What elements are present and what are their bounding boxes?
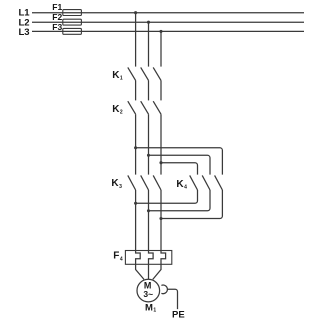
wire PE <box>168 289 178 309</box>
contactor K1 pole 2 contact <box>141 67 149 80</box>
contactor K2 pole 1 contact <box>128 101 136 114</box>
contactor K3 pole 2 contact <box>141 175 149 190</box>
svg-text:3~: 3~ <box>143 289 153 299</box>
wire K4 outer return to phase3 <box>161 190 222 219</box>
wire L1 bus <box>32 12 304 14</box>
wire L3 bus <box>32 30 304 32</box>
node phase1 branch bottom <box>134 202 137 205</box>
wire phase1 K2 to K3 <box>135 114 137 174</box>
node phase1 branch top <box>134 146 137 149</box>
wire phase2 K2 to K3 <box>148 114 150 174</box>
contactor K1 pole 3 contact <box>153 67 161 80</box>
wire phase3 K2 to K3 <box>160 114 162 174</box>
fuse F3 <box>63 28 82 34</box>
svg-text:PE: PE <box>172 309 185 320</box>
PE pigtail terminal <box>161 285 167 294</box>
overload relay F4 body <box>125 251 171 265</box>
svg-text:1: 1 <box>153 308 156 314</box>
wire phase2 K3 through F4 heater to motor <box>149 190 154 279</box>
wire K4 inner return to phase1 <box>136 190 198 203</box>
contactor K2 pole 2 contact <box>141 101 149 114</box>
svg-text:1: 1 <box>120 76 123 82</box>
svg-text:F3: F3 <box>52 22 62 32</box>
contactor K4 pole 1 contact <box>190 175 198 190</box>
wire phase3 drop from L3 to K1 <box>160 31 162 66</box>
node phase2 branch bottom <box>147 209 150 212</box>
contactor K3 pole 3 contact <box>153 175 161 190</box>
wire branch phase1 to K4 outer <box>136 148 223 175</box>
svg-text:F2: F2 <box>52 12 62 22</box>
contactor K1 pole 1 contact <box>128 67 136 80</box>
svg-text:2: 2 <box>120 110 123 116</box>
contactor K3 pole 1 contact <box>128 175 136 190</box>
wire branch phase3 to K4 inner <box>161 163 198 175</box>
wire phase1 K1 to K2 <box>135 80 137 100</box>
wire phase3 K1 to K2 <box>160 80 162 100</box>
svg-text:4: 4 <box>184 185 187 191</box>
wire phase1 drop from L1 to K1 <box>135 13 137 67</box>
wire phase3 K3 through F4 heater to motor <box>153 190 166 279</box>
node L3 tap <box>159 30 162 33</box>
node phase3 branch top <box>159 161 162 164</box>
wire K4 middle return to phase2 <box>149 190 211 211</box>
svg-text:4: 4 <box>120 256 123 262</box>
motor M1 circle <box>137 279 160 302</box>
svg-text:F1: F1 <box>52 2 62 12</box>
contactor K4 pole 2 contact <box>202 175 210 190</box>
contactor K2 pole 3 contact <box>153 101 161 114</box>
wire L2 bus <box>32 21 304 23</box>
svg-text:3: 3 <box>119 184 122 190</box>
svg-text:L3: L3 <box>19 27 30 38</box>
svg-text:M: M <box>145 303 153 314</box>
wire phase2 K1 to K2 <box>148 80 150 100</box>
fuse F1 <box>63 10 82 16</box>
svg-text:F: F <box>113 251 119 262</box>
node phase2 branch top <box>147 154 150 157</box>
wire phase2 drop from L2 to K1 <box>148 22 150 67</box>
contactor K4 pole 3 contact <box>215 175 223 190</box>
wire branch phase2 to K4 middle <box>149 155 211 174</box>
node L2 tap <box>147 21 150 24</box>
wire phase1 K3 through F4 heater to motor <box>136 190 144 279</box>
node L1 tap <box>134 11 137 14</box>
node phase3 branch bottom <box>159 217 162 220</box>
fuse F2 <box>63 19 82 25</box>
